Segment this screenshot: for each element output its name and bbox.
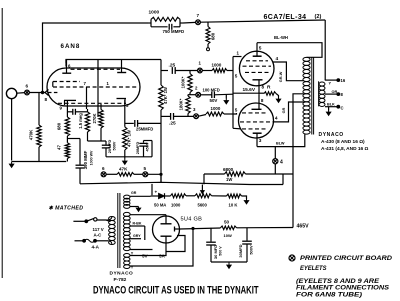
wire feedback to output tap [200,20,325,22]
svg-text:30MFD: 30MFD [238,244,243,257]
wire feedback drop to 16 ohm tap [324,20,326,80]
svg-text:3A: 3A [159,254,166,259]
eyelet 1 [198,68,203,73]
wire input jack to eyelet [17,92,25,95]
grid dashes lower tube [242,112,268,114]
pot wiper arrow [201,185,203,191]
wire 6800 row [204,173,225,175]
5V top tap [130,252,166,256]
svg-text:5: 5 [235,108,238,113]
grid bus vertical [232,57,234,129]
eyelet 6 board [101,172,106,177]
wire bias left drop [151,184,153,195]
svg-text:1000: 1000 [212,62,222,67]
resistor 100K divider [189,71,191,74]
wire to eyelet 7 [183,21,196,24]
svg-text:500V: 500V [249,245,254,255]
svg-text:FOR 6AN8 TUBE): FOR 6AN8 TUBE) [296,292,362,299]
svg-text:1000: 1000 [211,106,221,111]
wire plate load bottom [160,110,162,182]
svg-text:6: 6 [102,166,105,171]
svg-text:BLK: BLK [327,102,335,106]
capacitor 20MFD 450V [143,141,145,143]
B+ center tap [293,94,304,228]
svg-text:1000: 1000 [171,203,181,208]
svg-text:BLW: BLW [276,142,285,146]
pin 7 wire [86,87,88,109]
resistor 270K [100,104,102,110]
wire B+ to 465V [237,227,294,229]
filter ground bus [211,261,247,263]
svg-text:750 MMFD: 750 MMFD [163,29,185,34]
ground bus lower-left [12,161,67,163]
svg-text:500 V: 500 V [219,246,223,256]
resistor 47 cathode [66,139,68,143]
switch dot [85,220,88,223]
svg-text:390 MMF: 390 MMF [83,150,88,169]
capacitor 25MMFD [134,120,136,127]
eyelet 4 [273,159,278,164]
secondary tap common [325,106,337,108]
wire plate lower to transformer [257,134,305,146]
svg-text:✱ MATCHED: ✱ MATCHED [49,206,84,212]
svg-text:1000: 1000 [149,10,160,16]
output secondary rail [318,81,320,106]
svg-text:30 MFD: 30 MFD [213,245,218,259]
legend eyelet symbol [289,255,295,261]
input jack [6,88,16,98]
resistor 6800 [225,172,246,176]
svg-text:20MFD: 20MFD [136,142,140,155]
ground filter [228,262,230,265]
svg-text:270K: 270K [92,113,97,123]
svg-text:4: 4 [275,116,278,122]
wire 10K to ground [242,196,247,199]
svg-text:1: 1 [107,81,110,86]
svg-text:2: 2 [195,86,198,91]
svg-text:1: 1 [199,61,202,66]
svg-text:.25: .25 [169,121,176,127]
svg-text:GRY: GRY [133,234,141,238]
resistor 5600 pot [195,194,212,198]
resistor 1000 grid stopper lower [206,112,224,116]
svg-text:450V: 450V [145,142,149,151]
wire eyelet3 to 1000 [199,115,207,117]
primary winding [109,217,116,221]
plate lower 6CA7 [253,132,262,134]
ground R [278,98,280,100]
HV tap GRY [130,238,141,240]
wire R branch [259,92,264,94]
svg-text:465V: 465V [297,223,310,229]
fuse dots [83,239,86,242]
switch blade [86,219,93,222]
svg-text:3: 3 [193,107,196,112]
svg-text:3: 3 [259,138,262,144]
stub lower grid3 [233,127,241,130]
svg-text:C: C [341,106,344,111]
bias winding [124,195,130,199]
tube 6CA7 upper [239,51,274,86]
HV center tap RBK [130,225,145,227]
grid dashed line bottom [58,102,126,104]
AC line bottom [75,240,84,242]
svg-text:6: 6 [26,84,29,89]
svg-text:47K* 1W: 47K* 1W [127,130,132,147]
svg-text:4-A: 4-A [92,245,100,250]
wire 5U4 filament bottom [165,243,167,252]
svg-text:680: 680 [211,32,216,40]
svg-text:GR-W: GR-W [279,71,283,82]
tube 6AN8 envelope [47,68,140,106]
capacitor cathode bypass [67,111,72,113]
wire bias mid [186,195,195,197]
pentode cathode 6AN8 [64,99,76,101]
secondary tap 8 [325,93,337,95]
cathode lower 6CA7 [252,108,262,110]
diode bias [159,193,165,199]
svg-text:PRINTED CIRCUIT BOARD: PRINTED CIRCUIT BOARD [300,255,392,262]
capacitor 100MFD 50V [211,92,213,98]
svg-text:(2): (2) [315,14,322,20]
HV winding [123,212,130,216]
svg-text:50V: 50V [210,98,218,103]
svg-text:+: + [155,190,158,195]
capacitor .25 upper [171,67,173,74]
triode cathode 6AN8 [117,98,127,100]
wire eyelet5 right [148,174,161,182]
wire 100MFD ground branch [225,95,227,99]
capacitor 30MFD second [246,228,248,241]
capacitor 750 MMFD [168,24,170,30]
svg-text:8: 8 [45,97,48,102]
svg-text:6AN8: 6AN8 [61,43,81,50]
svg-text:7: 7 [84,81,87,86]
svg-text:117 V: 117 V [93,227,104,232]
resistor 680 top-right [207,22,209,27]
wire coupling top branch [161,70,168,72]
AC line top [73,220,86,222]
bias winding top tap [130,195,151,197]
output transformer core [311,57,313,135]
wire bus to 6800 row [282,174,284,184]
wire bias right [212,195,227,197]
5V winding [124,253,130,257]
resistor 180K divider [186,96,190,114]
capacitor 390 MMF [79,139,81,165]
svg-text:100 MFD: 100 MFD [203,88,220,93]
svg-text:EYELETS: EYELETS [300,265,327,272]
svg-text:A-430 (8 AND 16 Ω): A-430 (8 AND 16 Ω) [321,139,365,145]
pentode plate 6AN8 [66,60,68,73]
ground secondary [328,107,330,111]
HV top tap [130,214,166,216]
stub lower grid [233,113,237,114]
wire plate to transformer top [257,43,322,58]
wire diode to R [165,195,171,197]
wire coupling row [125,122,134,124]
svg-text:47K* 1W: 47K* 1W [163,87,168,104]
wire B+ out [180,228,221,229]
ground 100MFD [225,99,227,101]
svg-text:100K*: 100K* [181,76,186,88]
svg-text:10 K: 10 K [229,203,238,208]
wire jack shell down [11,99,13,161]
grid dashes upper tube [246,60,268,62]
svg-text:1W: 1W [226,177,232,182]
svg-text:R: R [267,85,271,91]
svg-text:6CA7/EL-34: 6CA7/EL-34 [264,14,307,21]
resistor 1000 bias [171,194,187,198]
svg-text:1: 1 [237,51,240,56]
wire eyelet1 to 1000 [202,70,212,72]
svg-text:6800: 6800 [223,167,234,172]
svg-text:GR: GR [282,107,286,113]
grid arrow pin 8 [45,90,49,96]
screen stub lower [273,102,304,122]
capacitor 30MFD first [210,228,212,242]
5V bottom tap [130,229,193,266]
wire eyelet to grid pin 8 [29,92,45,94]
svg-text:R-BK: R-BK [133,221,142,225]
rectifier plate top [165,216,167,224]
resistor R bias [264,92,276,96]
wire cathode node right [67,138,80,140]
svg-text:1.5 meg: 1.5 meg [78,113,83,129]
left border line [1,8,3,278]
box bottom wire [106,156,152,158]
resistor 680 cathode [66,115,68,117]
wire feedback top-left corner [43,23,149,93]
svg-text:8: 8 [262,85,265,90]
primary top lead [97,220,111,222]
bus bias [80,182,283,184]
grid dashed line 2 [53,81,80,83]
wire RC bottom branch [151,26,168,28]
ground bias row [246,199,248,201]
switch open contact [94,218,97,221]
resistor 1.5 meg [87,109,89,112]
eyelet 2 [196,92,201,97]
wire bias network bottom [88,140,107,142]
eyelet 4 line [274,147,276,159]
grid dashed line top [71,68,121,70]
svg-text:Y: Y [329,82,332,86]
rectifier plate bottom [161,235,172,237]
svg-text:470K: 470K [29,129,34,140]
inner box right side [97,60,99,118]
fuse 4A [84,239,95,242]
primary bottom lead [95,240,108,242]
svg-text:5: 5 [235,74,238,79]
svg-text:8: 8 [261,98,264,103]
inner box left side [65,60,67,67]
svg-text:1000 WV: 1000 WV [90,150,94,165]
svg-text:.25: .25 [169,62,176,68]
svg-text:3: 3 [126,103,129,108]
eyelet 7 [196,20,201,25]
svg-text:5V: 5V [142,254,149,259]
rectifier side plate [174,227,176,232]
svg-text:50 MA: 50 MA [154,203,166,208]
wire eyelet4 down [274,164,276,174]
svg-text:47K: 47K [119,166,128,171]
resistor 10K bias [227,194,242,198]
svg-text:20 MFD: 20 MFD [108,139,112,153]
svg-text:DYNACO: DYNACO [110,270,134,276]
resistor 1000 feedback (parallel RC) [148,22,151,24]
svg-text:500V: 500V [112,141,116,150]
resistor 47K bias [106,173,117,175]
terminal dot under 680 [207,48,210,51]
svg-text:15.6V: 15.6V [243,87,256,93]
svg-text:8: 8 [341,92,344,97]
tube 5U4GB [153,216,180,243]
junction feedback-input [41,91,43,93]
ground symbol input [11,162,13,165]
wire 6800 left jog [203,174,205,184]
tube 6CA7 lower [239,103,274,138]
grid dashed line 4 short [48,92,58,94]
svg-text:180K*: 180K* [179,98,184,110]
svg-text:50: 50 [224,220,230,225]
eyelet 5 board [143,172,148,177]
cathode upper 6CA7 [253,79,263,81]
svg-text:DYNACO: DYNACO [319,132,344,138]
svg-text:5: 5 [144,166,147,171]
bias winding bottom tap [130,206,139,208]
output transformer secondary [319,82,325,86]
wire 6AN8 plate top rail [66,60,161,64]
wire eyelet2 right [201,94,212,96]
svg-text:BL-WH: BL-WH [274,35,288,40]
secondary tap 16 [325,79,337,81]
HV bottom tap [130,249,153,251]
screen stub upper [273,62,304,81]
junction eyelet5 drop [160,173,162,175]
plate upper 6CA7 [256,43,258,56]
power transformer core [117,193,119,268]
wire divider junction [188,94,196,96]
svg-text:7: 7 [197,13,200,18]
resistor 470K [38,93,40,126]
svg-text:4: 4 [276,56,279,62]
capacitor .25 lower [161,115,170,117]
triode plate 6AN8 [121,60,123,73]
eyelet 6 input [25,90,30,95]
stub to upper grid pin1 [233,56,242,58]
svg-text:OR: OR [332,90,338,94]
grid dashed line 3 [53,86,137,88]
capacitor 20MFD 500V [105,141,107,145]
resistor 47K 1W plate load [159,85,164,110]
svg-text:16: 16 [341,78,346,83]
wire triode cathode down [124,108,126,123]
svg-text:680: 680 [57,122,62,130]
box right wire [151,141,153,157]
wire bias row start [151,195,159,197]
resistor 50 ohm [221,226,237,230]
svg-text:4: 4 [280,160,283,166]
junction B+ [192,227,194,229]
svg-text:10W: 10W [224,233,232,238]
wire filament loop [166,236,185,252]
wire 6800 to rail [246,173,294,175]
wire cathode 9 down [66,108,68,115]
box top wire [144,140,153,142]
wire R to ground [276,94,279,98]
svg-text:5600: 5600 [198,203,208,208]
svg-text:5U4 GB: 5U4 GB [181,217,203,223]
output transformer primary [303,57,310,61]
svg-text:DYNACO CIRCUIT AS USED IN THE: DYNACO CIRCUIT AS USED IN THE DYNAKIT [93,284,259,296]
svg-text:A-431 (4,8, AND 16 Ω: A-431 (4,8, AND 16 Ω [321,146,369,152]
eyelet 3 [194,114,199,119]
svg-text:P-782: P-782 [114,277,127,283]
resistor 47K 1W triode cathode [123,127,127,150]
svg-text:GR: GR [131,191,137,195]
ground triode cathode [124,159,126,162]
wire cathode bus 15.6V [233,92,259,94]
svg-text:A-C: A-C [94,232,103,237]
resistor 1000 grid stopper upper [212,69,227,73]
plate line 6AN8 [160,60,162,86]
svg-text:5: 5 [259,46,262,52]
svg-text:25MMFD: 25MMFD [136,127,153,132]
svg-text:47: 47 [57,145,62,150]
